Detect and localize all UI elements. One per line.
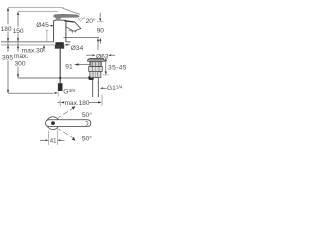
- arrow 180 at deck down: [7, 38, 9, 41]
- svg-text:35-45: 35-45: [108, 64, 127, 71]
- svg-text:150: 150: [13, 28, 24, 35]
- arrow max300 below deck up: [17, 45, 19, 48]
- svg-text:20°: 20°: [86, 17, 96, 25]
- 35-45 dim: [105, 58, 107, 61]
- waste vertical arrow to rim: [97, 38, 99, 41]
- pop-up rod horizontal: [18, 77, 90, 79]
- swivel arrow upper: [72, 106, 76, 110]
- rod junction dot: [59, 77, 61, 79]
- dim line 180 vertical: [7, 8, 9, 93]
- dim line 150 vertical: [17, 12, 19, 78]
- top view spout capsule: [46, 120, 91, 127]
- arrow 180 top up: [7, 8, 9, 11]
- arrow 395 bottom down: [7, 90, 9, 93]
- supply pipe: [59, 49, 61, 83]
- svg-text:Ø45: Ø45: [36, 22, 49, 29]
- svg-text:50°: 50°: [82, 111, 92, 119]
- basin rim line: [64, 36, 100, 38]
- svg-text:Ø34: Ø34: [71, 45, 84, 52]
- waste tailpipe: [92, 78, 94, 97]
- top view aerator end detail: [86, 121, 88, 125]
- svg-text:max.30: max.30: [22, 48, 44, 55]
- arrow 150 at deck down: [17, 38, 19, 41]
- arrow max300 bottom down: [17, 74, 19, 77]
- swivel arrow lower: [72, 137, 76, 141]
- waste flange: [88, 58, 105, 61]
- svg-text:41: 41: [50, 139, 57, 145]
- 90 dim upper arrow: [99, 13, 101, 18]
- Ø63 dim: [86, 54, 92, 56]
- label G1 1/4 with arrow: [100, 87, 103, 89]
- spout nose: [66, 21, 81, 32]
- deck top line: [1, 41, 54, 43]
- deck bottom line: [1, 44, 55, 46]
- lever stem: [56, 18, 61, 21]
- arrow 150 top up: [17, 12, 19, 15]
- swivel dash line lower: [59, 129, 74, 138]
- 41 dim: [48, 131, 50, 145]
- arrow 395 below deck up: [7, 45, 9, 48]
- waste nut: [89, 67, 103, 72]
- extension line top for 180 (raised lever level): [8, 7, 64, 9]
- lever handle blade: [54, 14, 80, 17]
- svg-text:90: 90: [97, 28, 105, 35]
- 395 bottom extension line: [8, 92, 54, 94]
- waste body: [90, 71, 101, 77]
- shank and mounting nut: [55, 42, 63, 45]
- top view center dot: [51, 121, 55, 125]
- svg-text:50°: 50°: [82, 134, 92, 142]
- svg-text:180: 180: [1, 26, 12, 33]
- faucet body: [54, 20, 66, 42]
- pipe fitting G3/8: [58, 83, 63, 91]
- max.180 dim: [57, 101, 60, 103]
- aerator marks: [69, 30, 77, 33]
- extension line top for 150 (lever level): [18, 11, 58, 13]
- 90 dim lower arrow: [99, 38, 101, 41]
- svg-text:91: 91: [65, 63, 73, 70]
- 20 degree angle mark: [77, 17, 81, 22]
- raised lever line: [63, 8, 80, 14]
- top view base circle: [47, 117, 60, 130]
- extension line spout-outlet x=47: [45, 29, 48, 31]
- svg-text:max.180: max.180: [65, 100, 90, 107]
- rod knob: [88, 76, 93, 80]
- swivel dash line upper: [58, 108, 73, 117]
- svg-text:300: 300: [15, 61, 26, 68]
- waste neck: [90, 61, 101, 66]
- svg-text:395: 395: [2, 54, 13, 61]
